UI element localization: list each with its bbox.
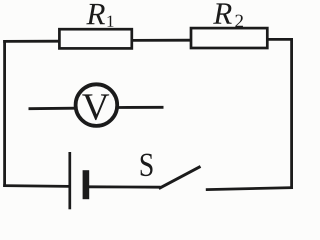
wire between R1 and R2 (132, 39, 191, 42)
voltmeter right stub wire (117, 106, 164, 109)
wire right vertical (290, 38, 293, 189)
label R1 (86, 4, 105, 24)
wire left vertical (3, 40, 6, 187)
voltmeter V1 circle (76, 84, 118, 126)
wire bottom-right horizontal (206, 188, 293, 190)
resistor R1 (59, 29, 131, 48)
battery long plate (positive) (68, 152, 71, 209)
battery short plate (negative) (83, 170, 90, 199)
voltmeter letter V (82, 94, 109, 120)
resistor R2 (191, 28, 267, 48)
switch blade (159, 166, 201, 188)
wire battery to switch pivot (89, 185, 161, 188)
wire top-left horizontal (3, 40, 60, 43)
label S (141, 154, 153, 177)
voltmeter left stub wire (29, 107, 77, 110)
wire bottom-left horizontal (3, 184, 69, 188)
label R2 (213, 3, 232, 23)
wire R2 to top-right corner (266, 38, 293, 41)
